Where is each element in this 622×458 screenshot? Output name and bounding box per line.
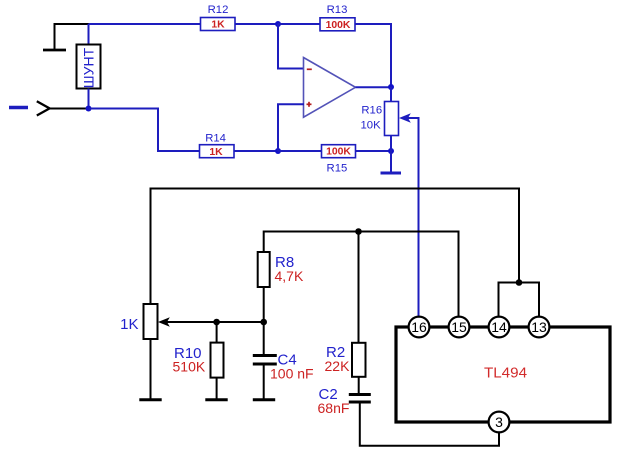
- resistor R14: [200, 145, 235, 158]
- resistor R13: [320, 18, 355, 31]
- svg-text:510K: 510K: [173, 359, 206, 375]
- capacitor C4: [253, 356, 277, 365]
- wire: [356, 150, 392, 152]
- wire: [89, 109, 200, 152]
- ground: [43, 24, 66, 50]
- wire: [278, 24, 304, 69]
- wire: [263, 287, 265, 322]
- wire: [263, 364, 265, 399]
- wire wiper line: [165, 321, 264, 323]
- ground: [205, 398, 227, 401]
- label R12: [208, 4, 229, 16]
- svg-text:14: 14: [491, 319, 507, 335]
- svg-text:100K: 100K: [326, 20, 351, 31]
- label C2: [319, 386, 338, 403]
- label C4: [278, 352, 297, 369]
- resistor R10: [211, 343, 224, 378]
- wire: [234, 150, 278, 152]
- wire: [50, 108, 89, 110]
- value label 100K: [326, 147, 351, 158]
- wire: [358, 377, 360, 394]
- label R10: [174, 345, 202, 362]
- label R15: [327, 162, 348, 174]
- wire: [88, 89, 90, 109]
- pin 13: [529, 317, 550, 338]
- capacitor C2: [349, 395, 371, 403]
- svg-text:10K: 10K: [361, 120, 382, 132]
- wire: [390, 136, 392, 152]
- op-amp U1: [304, 58, 356, 118]
- wire: [263, 322, 265, 355]
- IC U2 TL494: [396, 327, 610, 422]
- resistor R8: [258, 252, 270, 287]
- value label 100 nF: [270, 366, 314, 382]
- value label 10K: [361, 120, 382, 132]
- wire: [89, 23, 202, 25]
- wire: [278, 23, 320, 25]
- node: [516, 279, 523, 286]
- wire top rail of lower section: [151, 189, 520, 305]
- wire: [356, 86, 392, 88]
- svg-text:1K: 1K: [209, 147, 223, 158]
- svg-text:16: 16: [411, 319, 427, 335]
- wire: [278, 104, 304, 151]
- svg-text:R12: R12: [208, 4, 229, 16]
- node: [260, 319, 267, 326]
- svg-text:1K: 1K: [120, 316, 138, 333]
- ground: [139, 398, 161, 401]
- svg-text:1K: 1K: [211, 20, 225, 31]
- svg-text:100K: 100K: [326, 147, 351, 158]
- resistor R15: [322, 145, 356, 158]
- potentiometer 1K: [144, 304, 170, 339]
- ground: [381, 151, 402, 173]
- pin 14: [489, 317, 510, 338]
- wire: [355, 24, 391, 87]
- resistor R12: [201, 18, 236, 31]
- value label 22K: [325, 358, 351, 374]
- label R16: [361, 104, 382, 116]
- svg-text:100 nF: 100 nF: [270, 366, 314, 382]
- label R2: [326, 344, 345, 361]
- wire: [390, 87, 392, 102]
- wire: [216, 378, 218, 400]
- svg-text:15: 15: [451, 319, 467, 335]
- svg-text:22K: 22K: [325, 358, 351, 374]
- wire second rail: [264, 232, 459, 317]
- wire bracket pins 14 13: [499, 283, 540, 317]
- svg-text:68nF: 68nF: [318, 400, 350, 416]
- potentiometer R16: [385, 102, 411, 136]
- svg-text:3: 3: [495, 414, 503, 430]
- input terminal: [9, 101, 50, 115]
- svg-text:ШУНТ: ШУНТ: [81, 47, 97, 88]
- node output: [388, 84, 394, 90]
- pin 15: [449, 317, 470, 338]
- svg-text:13: 13: [531, 319, 547, 335]
- value label 1K: [211, 20, 225, 31]
- svg-text:R15: R15: [327, 162, 348, 174]
- wire wiper of R16 to pin 16: [405, 118, 419, 317]
- value label 1K: [209, 147, 223, 158]
- node: [355, 228, 362, 235]
- wire: [358, 232, 360, 344]
- label R13: [327, 4, 348, 16]
- node: [275, 21, 281, 27]
- ground: [253, 398, 275, 401]
- node: [275, 148, 281, 154]
- wire: [150, 339, 152, 399]
- value label 1K: [120, 316, 138, 333]
- wire: [360, 402, 499, 446]
- resistor R2: [352, 343, 366, 377]
- label R14: [205, 132, 226, 144]
- svg-text:R14: R14: [205, 132, 226, 144]
- value label 68nF: [318, 400, 350, 416]
- svg-text:R16: R16: [361, 104, 382, 116]
- svg-text:4,7K: 4,7K: [275, 268, 304, 284]
- wire: [88, 24, 90, 45]
- pin 16: [409, 317, 430, 338]
- wire: [216, 322, 218, 343]
- wire: [54, 23, 90, 25]
- svg-text:R13: R13: [327, 4, 348, 16]
- label R8: [275, 254, 294, 271]
- shunt ШУНТ: [77, 45, 101, 89]
- node: [213, 319, 220, 326]
- value label 100K: [326, 20, 351, 31]
- node: [388, 148, 394, 154]
- value label 510K: [173, 359, 206, 375]
- node input junction: [86, 106, 92, 112]
- wire: [278, 150, 322, 152]
- wire: [235, 23, 278, 25]
- value label 4,7K: [275, 268, 304, 284]
- pin 3: [489, 412, 510, 433]
- svg-text:TL494: TL494: [484, 364, 527, 381]
